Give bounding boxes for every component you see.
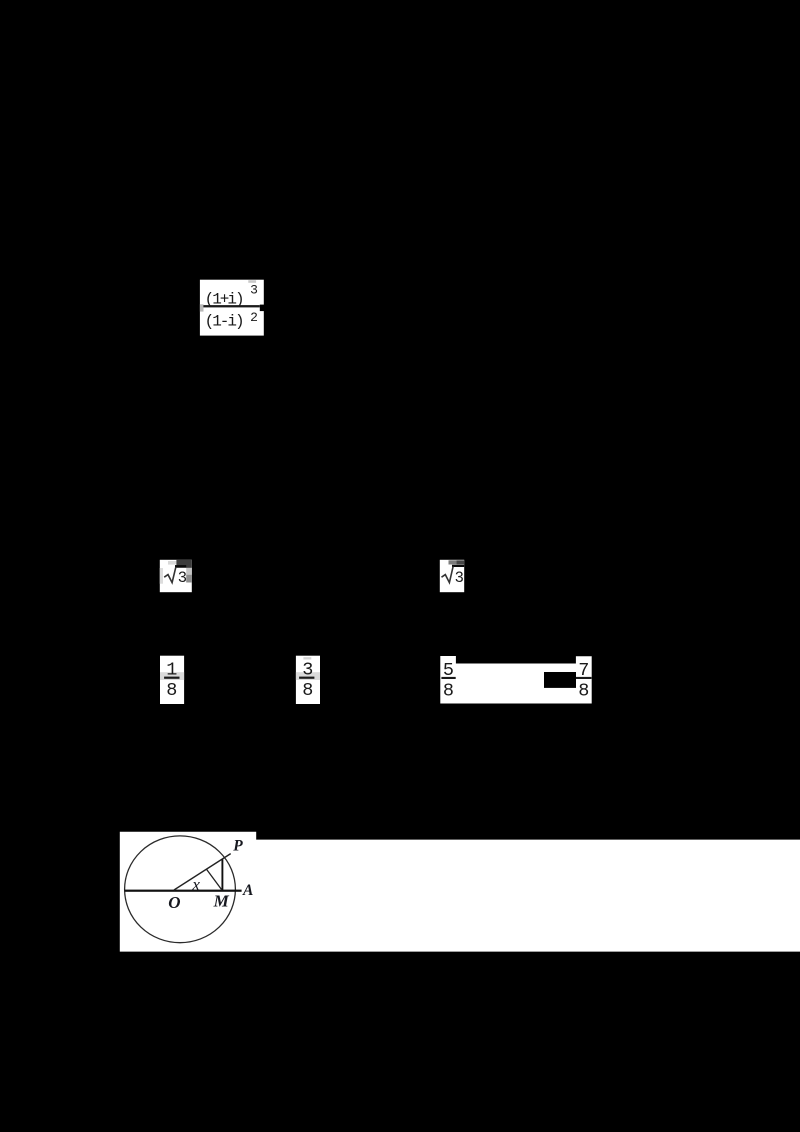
horizontal diameter line OA: [124, 890, 241, 892]
white strip body: [440, 656, 591, 704]
fraction bar: [299, 677, 314, 679]
svg-text:M: M: [213, 891, 230, 910]
fraction bar: [164, 677, 179, 679]
medium gray patch top: [449, 560, 457, 564]
radical check stroke: [164, 567, 176, 583]
fraction bar of 7/8: [576, 677, 592, 679]
ray OP: [174, 854, 231, 890]
sqrt(3) image box #1: [160, 560, 192, 592]
svg-text:3: 3: [455, 569, 464, 587]
svg-text:x: x: [191, 875, 200, 894]
circle O: [125, 836, 236, 943]
svg-text:3: 3: [178, 569, 187, 587]
slanted segment from OP down to M: [207, 869, 222, 890]
gray patch right mid: [186, 568, 192, 575]
small gray dash top: [303, 657, 311, 659]
svg-text:(1-i): (1-i): [205, 312, 243, 330]
gray band at bar level: [160, 672, 184, 680]
radical check stroke: [442, 567, 454, 583]
bottom white band with geometry figure: [120, 832, 800, 952]
svg-text:3: 3: [250, 283, 258, 298]
svg-text:8: 8: [166, 680, 177, 701]
svg-text:O: O: [168, 893, 180, 912]
answer strip 5/8 ... 7/8: [440, 656, 591, 704]
black filled rectangle: [544, 672, 576, 688]
svg-text:P: P: [233, 838, 243, 855]
svg-text:2: 2: [250, 310, 258, 325]
vertical segment from OP down to M: [221, 859, 223, 890]
dark gray patch top-right: [456, 560, 464, 564]
light gray patch top: [168, 561, 176, 565]
white band (figure box taller at left, band to page right edge): [120, 832, 800, 952]
gray patch right lower: [186, 575, 192, 583]
gray band at bar level: [296, 672, 320, 680]
equation image box (1+i)^3/(1-i)^2: [200, 280, 265, 336]
svg-text:A: A: [242, 882, 253, 899]
fraction image 3/8: [296, 656, 320, 704]
dark gray patch top-right: [176, 560, 191, 568]
black notch right end of bar: [260, 305, 265, 312]
radical vinculum: [175, 565, 186, 567]
fraction bar with gray left end: [200, 304, 204, 311]
fraction bar of 5/8: [441, 677, 455, 679]
fraction image 1/8: [160, 656, 184, 704]
svg-text:8: 8: [302, 680, 313, 701]
light gray left edge: [160, 568, 163, 584]
radical vinculum: [452, 565, 464, 567]
svg-text:8: 8: [443, 680, 454, 701]
svg-text:8: 8: [578, 680, 589, 701]
sqrt(3) image box #2: [440, 560, 464, 592]
gray dash above superscript 3: [248, 280, 256, 283]
